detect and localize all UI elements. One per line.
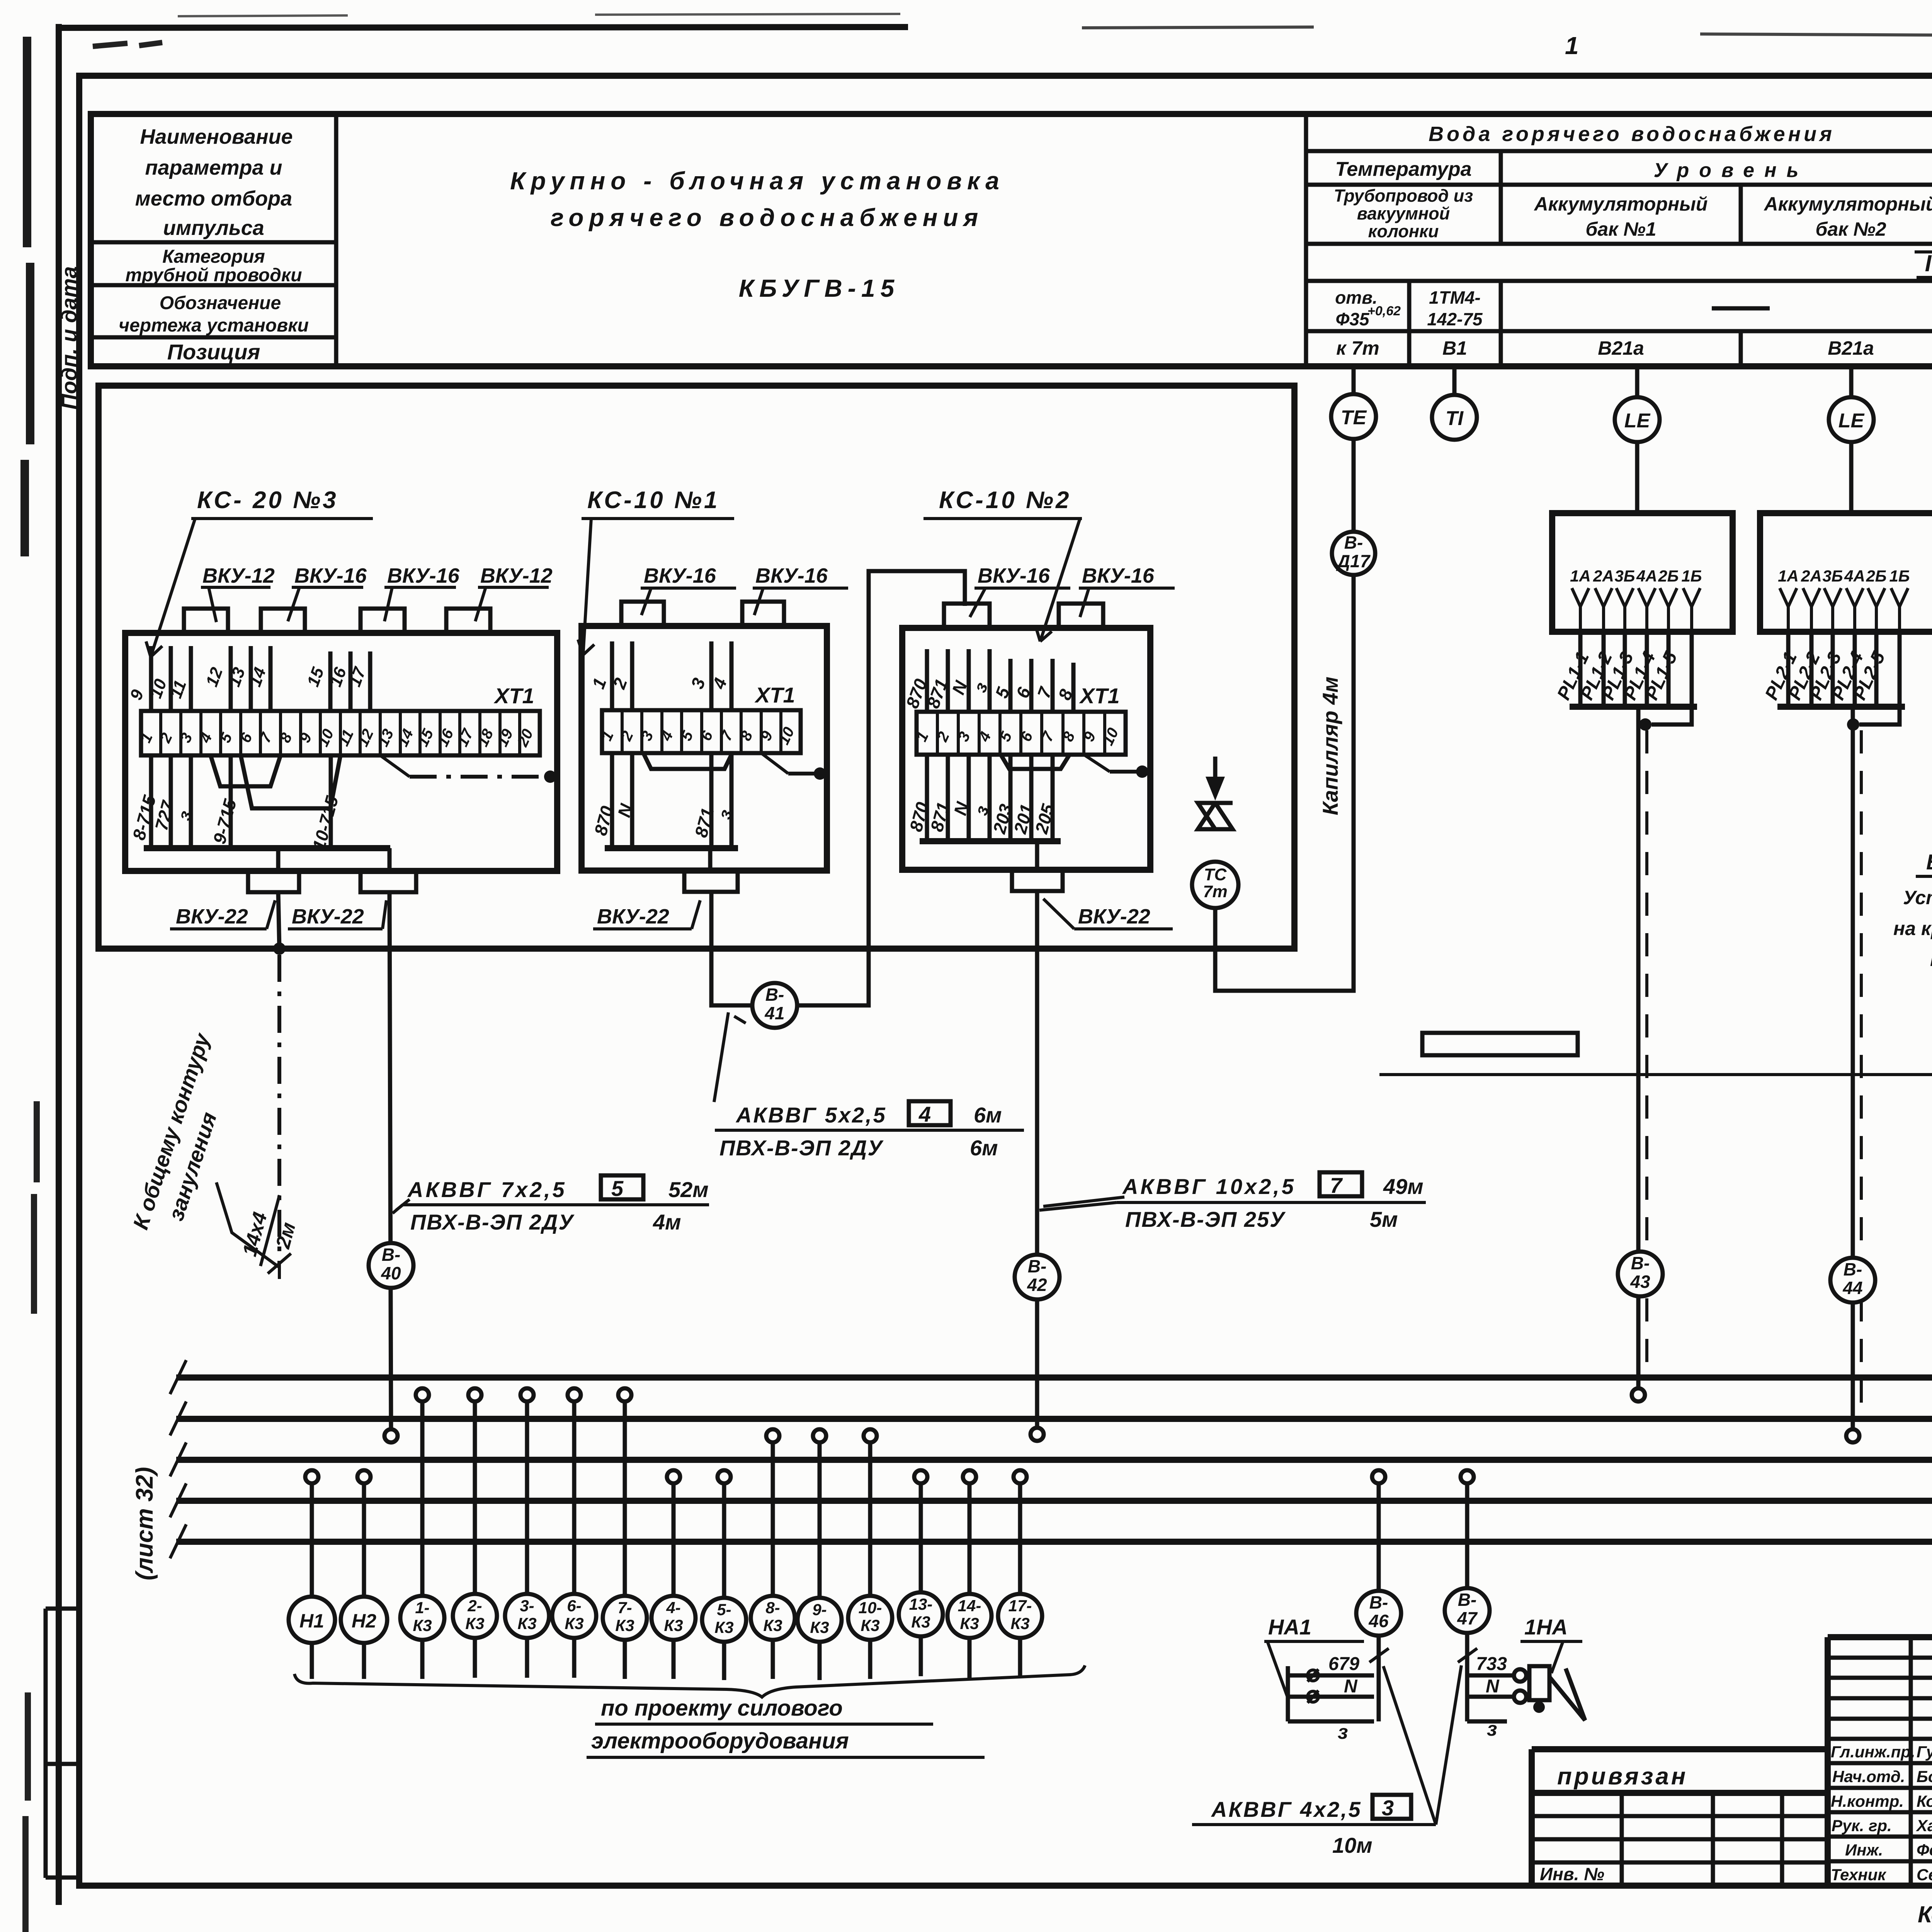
svg-text:Обозначение: Обозначение — [160, 293, 281, 313]
svg-text:Борисов: Борисов — [1917, 1767, 1932, 1786]
svg-text:трубной проводки: трубной проводки — [125, 265, 302, 286]
svg-text:Фетисова: Фетисова — [1917, 1841, 1932, 1859]
ground line end tick — [268, 1253, 291, 1279]
svg-text:ВКУ-16: ВКУ-16 — [755, 564, 828, 587]
device circle 2-K3 — [453, 1594, 497, 1638]
svg-text:К3: К3 — [465, 1614, 484, 1633]
svg-text:Аккумуляторный: Аккумуляторный — [1764, 193, 1932, 215]
svg-text:В-: В- — [1458, 1590, 1477, 1610]
connector VKU-16 no1 on KC-10 N2 — [944, 604, 990, 628]
shield dash-dot to screen point KC-20 — [380, 755, 410, 777]
svg-text:Инв. №: Инв. № — [1540, 1864, 1604, 1884]
jumper loop cells6-11 — [241, 755, 340, 808]
instrument TE (k7t) — [1331, 394, 1376, 439]
svg-text:Семаева: Семаева — [1917, 1866, 1932, 1884]
device circle 14-K3 — [947, 1594, 992, 1638]
PL1 1B return wire — [1651, 632, 1692, 724]
svg-text:5-: 5- — [717, 1600, 731, 1619]
V leader from cable label to both drops — [1383, 1665, 1461, 1825]
svg-text:Вода горячего водоснабжения: Вода горячего водоснабжения — [1429, 122, 1835, 146]
svg-text:ПВХ-В-ЭП 2ДУ: ПВХ-В-ЭП 2ДУ — [410, 1210, 575, 1234]
svg-text:ХТ1: ХТ1 — [493, 684, 534, 708]
PL2 pin labels — [1778, 567, 1910, 585]
svg-text:ВКУ-22: ВКУ-22 — [597, 905, 669, 928]
wire tap to 1-K3 — [420, 1401, 425, 1595]
svg-text:ХТ1: ХТ1 — [1079, 684, 1120, 708]
header table left column grid — [91, 114, 336, 366]
capillary line 4m down from B-D17 — [1215, 575, 1354, 991]
PL2 1B return wire — [1859, 632, 1900, 724]
svg-text:К3: К3 — [763, 1616, 782, 1634]
svg-text:1ТМ4-: 1ТМ4- — [1429, 287, 1480, 308]
label V3 with note — [1893, 835, 1932, 970]
row4 group mark IV — [1925, 250, 1932, 276]
svg-text:Установить: Установить — [1903, 887, 1932, 908]
privyazan table — [1532, 1749, 1828, 1886]
wire tap to B-46 — [1377, 1483, 1381, 1591]
jumper loop cells4-7 — [211, 755, 281, 786]
signature table grid — [1828, 1637, 1932, 1886]
svg-text:733: 733 — [1476, 1654, 1507, 1674]
svg-text:импульса: импульса — [163, 216, 264, 240]
svg-text:6-: 6- — [567, 1597, 581, 1615]
svg-text:Аккумуляторный: Аккумуляторный — [1534, 193, 1708, 215]
svg-text:10м: 10м — [1332, 1833, 1372, 1857]
PL2 pin forks — [1780, 588, 1908, 632]
left container box for KC blocks — [99, 386, 1294, 949]
svg-text:К3: К3 — [1010, 1614, 1029, 1633]
long thin reference line to cabinet — [1379, 1073, 1932, 1076]
wire tap to 3-K3 — [525, 1401, 529, 1594]
wire tap to 2-K3 — [473, 1401, 477, 1594]
svg-text:АКВВГ 4х2,5: АКВВГ 4х2,5 — [1211, 1797, 1362, 1821]
svg-text:ВКУ-22: ВКУ-22 — [176, 905, 248, 928]
cable marker B-44 — [1830, 1258, 1875, 1303]
svg-text:ХТ1: ХТ1 — [754, 683, 795, 707]
bottom wires KC-10 N2 — [927, 755, 1053, 841]
svg-text:В21а: В21а — [1828, 337, 1874, 359]
svg-text:ТС: ТС — [1204, 865, 1227, 884]
wire tap to 13-K3 — [919, 1483, 923, 1592]
svg-text:КС-10 №2: КС-10 №2 — [939, 487, 1071, 514]
thermometer circle TC 7t — [1192, 862, 1238, 908]
svg-text:N: N — [1486, 1676, 1500, 1697]
svg-text:4-: 4- — [666, 1599, 680, 1617]
device circle 5-K3 — [702, 1598, 746, 1642]
svg-text:бак №1: бак №1 — [1585, 218, 1656, 240]
cable marker B-40 — [369, 1243, 413, 1288]
svg-text:Крупно - блочная установка: Крупно - блочная установка — [510, 167, 1005, 195]
connector VKU-16 no2 on KC-20 — [261, 609, 305, 633]
title text block — [510, 167, 1005, 302]
svg-text:+0,62: +0,62 — [1367, 304, 1401, 318]
svg-text:Н2: Н2 — [352, 1610, 376, 1632]
row2 headers — [1335, 153, 1932, 187]
svg-text:по проекту силового: по проекту силового — [601, 1696, 843, 1721]
cable marker B-42 — [1015, 1255, 1060, 1299]
connector VKU-22 bottom KC-10 N2 — [1012, 870, 1063, 891]
svg-text:ВКУ-22: ВКУ-22 — [1078, 905, 1150, 928]
wire tap to 17-K3 — [1018, 1483, 1022, 1594]
svg-text:Н.контр.: Н.контр. — [1831, 1792, 1904, 1810]
drawing outer margin line — [56, 24, 62, 1905]
svg-text:TE: TE — [1341, 406, 1367, 429]
svg-text:КС-10 №1: КС-10 №1 — [587, 487, 719, 514]
svg-text:место отбора: место отбора — [135, 187, 292, 210]
title block outer — [1828, 1637, 1932, 1886]
cable marker B-43 — [1618, 1252, 1663, 1296]
signature names column — [1831, 1743, 1932, 1884]
svg-text:АКВВГ 10х2,5: АКВВГ 10х2,5 — [1122, 1174, 1296, 1199]
top wires 1,2,3,4 into XT1 KC-10 N1 — [612, 641, 731, 710]
svg-text:ПВХ-В-ЭП 25У: ПВХ-В-ЭП 25У — [1125, 1207, 1286, 1231]
svg-text:колонки: колонки — [1368, 221, 1439, 241]
svg-text:В-: В- — [1369, 1592, 1388, 1612]
svg-text:1: 1 — [1565, 32, 1579, 60]
wire from TE k7t down to B-D17 — [1352, 439, 1356, 532]
connector VKU-16 no2 on KC-10 N1 — [742, 602, 784, 626]
bottom wire labels KC-20 — [129, 793, 342, 852]
left column caption: installation drawing designation — [119, 293, 309, 336]
svg-text:Д17: Д17 — [1336, 551, 1371, 571]
junction dot on container bottom (ground tap) — [273, 942, 286, 955]
wire LE2 to level relay box PL2 — [1849, 442, 1854, 513]
terminal strip XT1 of KC-10 N2 — [917, 712, 1126, 755]
cable label AKVVG 4x2.5 no3 — [1192, 1795, 1436, 1857]
B-41 loop right side up to link — [797, 571, 965, 1005]
PL1 wires down — [1580, 632, 1668, 707]
svg-text:НА1: НА1 — [1268, 1615, 1311, 1639]
svg-text:TI: TI — [1446, 407, 1464, 430]
svg-text:Нач.отд.: Нач.отд. — [1832, 1767, 1905, 1786]
svg-text:49м: 49м — [1383, 1174, 1423, 1199]
shield dashed wire alongside B-44 — [1860, 730, 1863, 1410]
svg-text:52м: 52м — [668, 1177, 709, 1202]
shield dash-dot KC-10 N2 — [1084, 755, 1110, 772]
svg-text:бак №2: бак №2 — [1815, 218, 1886, 240]
svg-text:КБУГВ-15: КБУГВ-15 — [739, 274, 900, 302]
wire tap to 14-K3 — [968, 1483, 972, 1594]
svg-text:з: з — [1338, 1721, 1348, 1743]
svg-text:К3: К3 — [714, 1618, 733, 1636]
svg-text:4: 4 — [918, 1102, 931, 1126]
svg-text:К3: К3 — [615, 1616, 634, 1634]
svg-text:з: з — [1487, 1718, 1497, 1740]
svg-text:47: 47 — [1457, 1608, 1478, 1628]
svg-text:LE: LE — [1624, 410, 1651, 432]
PL2 bottom bus — [1777, 704, 1905, 710]
svg-text:Подп. и дата: Подп. и дата — [57, 266, 81, 410]
svg-text:В-: В- — [1344, 532, 1363, 553]
svg-text:ВКУ-12: ВКУ-12 — [202, 564, 275, 587]
device circle 4-K3 — [651, 1596, 696, 1640]
device 1HA wiring — [1467, 1675, 1514, 1721]
cable label AKVVG 7x2.5 no5 — [393, 1175, 709, 1234]
PL2 wires down — [1788, 632, 1876, 707]
top edge scan artifact line — [178, 14, 900, 16]
instrument TI stub — [1452, 366, 1457, 395]
svg-text:N: N — [1344, 1676, 1358, 1697]
valve at TC7t — [1198, 803, 1233, 829]
svg-text:42: 42 — [1027, 1275, 1047, 1295]
svg-text:В3: В3 — [1926, 850, 1932, 874]
svg-text:К3: К3 — [810, 1618, 829, 1636]
svg-text:В-: В- — [1028, 1256, 1047, 1276]
svg-text:вакуумной: вакуумной — [1357, 204, 1450, 223]
svg-text:6м: 6м — [970, 1136, 998, 1160]
svg-text:ВКУ-12: ВКУ-12 — [480, 564, 553, 587]
device circle 8-K3 — [751, 1596, 795, 1640]
svg-text:Н1: Н1 — [299, 1610, 324, 1632]
connector VKU-12 no1 on KC-20 — [184, 609, 228, 633]
wire from VKU-22 N1 down to B-41 loop — [710, 848, 752, 1005]
svg-text:чертежа установки: чертежа установки — [119, 315, 309, 336]
svg-text:Наименование: Наименование — [140, 125, 293, 148]
svg-text:4м: 4м — [653, 1210, 681, 1234]
svg-text:2Б: 2Б — [1658, 567, 1679, 585]
phase mark wire 679 — [1308, 1670, 1318, 1681]
svg-text:LE: LE — [1838, 410, 1865, 432]
panel bus bottom line — [176, 1539, 1932, 1545]
label KC-20 N3 — [146, 487, 373, 657]
wire LE1 to level relay box PL1 — [1635, 442, 1639, 513]
svg-text:3: 3 — [1382, 1796, 1394, 1820]
svg-text:КУ-1: КУ-1 — [1930, 949, 1932, 970]
top wire labels KC-10 N2 — [902, 676, 1077, 711]
label 14x4 / 2m (rotated) left — [236, 1189, 306, 1274]
horn 1HA — [1529, 1666, 1549, 1700]
cable marker B-41 — [752, 983, 797, 1028]
svg-text:ВКУ-16: ВКУ-16 — [387, 564, 460, 587]
tap circle B-40 — [384, 1429, 398, 1442]
wire bus to VKU-22 no2 down to B-40 tap — [389, 848, 391, 1430]
instrument TI — [1432, 395, 1477, 440]
row1 headers — [1429, 122, 1932, 146]
PL1 bottom bus — [1570, 704, 1697, 710]
svg-text:41: 41 — [764, 1003, 784, 1023]
svg-text:43: 43 — [1630, 1272, 1650, 1292]
svg-text:электрооборудования: электрооборудования — [591, 1728, 849, 1753]
jumper loop KC-10 N2 — [1001, 755, 1070, 769]
wire PL2 down to B-44 tap — [1851, 707, 1855, 1430]
bottom wire labels KC-10 N1 — [590, 801, 736, 840]
row5 values — [1335, 287, 1932, 329]
tap circle B-42 — [1031, 1428, 1044, 1441]
device circle 9-K3 — [798, 1598, 842, 1642]
connector VKU-22 no2 bottom KC-20 — [361, 871, 416, 892]
PL1 pin forks — [1572, 588, 1700, 632]
svg-text:АКВВГ 5х2,5: АКВВГ 5х2,5 — [735, 1103, 887, 1127]
svg-text:2А: 2А — [1593, 567, 1614, 585]
label K obshchemu konturu zanuleniya (rotated) left — [128, 1029, 244, 1242]
left column caption: pipe category — [125, 247, 302, 286]
terminal box KC-20 N3 — [125, 633, 557, 871]
B-46 drop rail — [1377, 1636, 1381, 1721]
XT1 cell numbers 1-20 — [137, 726, 537, 749]
terminal box KC-10 N2 — [902, 628, 1150, 870]
cable marker B-46 — [1356, 1591, 1401, 1636]
svg-text:В1: В1 — [1442, 337, 1467, 359]
terminal strip XT1 of KC-10 N1 — [602, 710, 801, 753]
brace under device circles — [294, 1665, 1085, 1697]
instrument LE no2 — [1829, 397, 1874, 442]
panel bus line Shchit2 — [176, 1457, 1932, 1463]
wire tap to 7-K3 — [623, 1401, 627, 1595]
svg-text:8-: 8- — [765, 1599, 780, 1617]
svg-text:В-: В- — [765, 985, 784, 1005]
instrument LE no1 — [1615, 397, 1660, 442]
svg-text:3Б: 3Б — [1822, 567, 1843, 585]
svg-text:К3: К3 — [861, 1616, 879, 1634]
wire tap to 9-K3 — [818, 1442, 822, 1597]
XT1 cell numbers KC-10 N2 — [913, 725, 1122, 748]
wire tap to H1 — [310, 1483, 314, 1597]
bottom collector bus KC-20 — [144, 845, 390, 851]
svg-text:В-: В- — [382, 1245, 401, 1265]
panel bus line Shchit1 sektsiya2 — [176, 1416, 1932, 1422]
instrument TE (k7t) stub — [1352, 366, 1356, 394]
left margin tick boxes — [46, 1609, 79, 1878]
label KC-10 N1 — [578, 487, 734, 655]
svg-text:3-: 3- — [520, 1597, 534, 1615]
panel bus line Shchit3 — [176, 1498, 1932, 1504]
device HA1 wiring ladder — [1288, 1666, 1374, 1721]
tap circle B-43 — [1632, 1388, 1645, 1401]
svg-text:Ф35: Ф35 — [1335, 309, 1369, 329]
note po proektu silovogo — [587, 1696, 985, 1757]
svg-text:14-: 14- — [958, 1597, 981, 1615]
svg-text:Трубопровод из: Трубопровод из — [1334, 186, 1473, 206]
shield dash-dot KC-10 N1 — [761, 753, 788, 774]
svg-text:5: 5 — [611, 1176, 624, 1201]
svg-text:ВКУ-16: ВКУ-16 — [1082, 564, 1155, 587]
wire tap to 8-K3 — [771, 1442, 775, 1595]
svg-text:параметра и: параметра и — [145, 156, 282, 179]
device circle H1 — [289, 1597, 335, 1643]
svg-text:Копир.: Копир. — [1918, 1901, 1932, 1927]
svg-text:Корчкова: Корчкова — [1917, 1792, 1932, 1810]
svg-text:В-: В- — [1844, 1259, 1862, 1279]
svg-text:Позиция: Позиция — [167, 340, 260, 364]
ground dash-dot line 14x4 2m — [277, 955, 281, 1264]
neutral mark wire N — [1308, 1691, 1318, 1702]
svg-text:1-: 1- — [415, 1599, 429, 1617]
XT1 cell numbers KC-10 N1 — [598, 724, 798, 747]
svg-text:Техник: Техник — [1831, 1866, 1886, 1884]
svg-text:горячего водоснабжения: горячего водоснабжения — [551, 204, 983, 231]
device circle 1-K3 — [400, 1596, 444, 1640]
panel bus line Shchit1 sektsiya1 — [176, 1374, 1932, 1381]
PL1 pin labels — [1570, 567, 1702, 585]
jumper loop KC-10 N1 — [643, 753, 732, 769]
bottom wire labels KC-10 N2 — [906, 799, 1058, 836]
svg-text:1Б: 1Б — [1681, 567, 1702, 585]
svg-text:Гл.инж.пр.: Гл.инж.пр. — [1831, 1743, 1915, 1761]
svg-text:13-: 13- — [909, 1595, 933, 1613]
device circle 13-K3 — [899, 1592, 943, 1636]
label KC-10 N2 — [923, 487, 1082, 641]
PL2 wire labels — [1761, 648, 1889, 703]
svg-text:Температура: Температура — [1335, 158, 1471, 180]
svg-text:3Б: 3Б — [1614, 567, 1635, 585]
svg-text:679: 679 — [1328, 1654, 1359, 1674]
svg-text:К3: К3 — [664, 1616, 683, 1634]
svg-text:К3: К3 — [565, 1614, 583, 1633]
wire from VKU-22 N2 down to B-42 tap — [1035, 841, 1039, 1428]
svg-text:Категория: Категория — [162, 247, 265, 267]
right table vertical grid — [1306, 114, 1932, 366]
svg-text:2А: 2А — [1801, 567, 1822, 585]
top wires into XT1 KC-10 N2 — [927, 649, 1073, 712]
svg-text:Уровень: Уровень — [1654, 159, 1809, 182]
svg-text:В21а: В21а — [1598, 337, 1644, 359]
wire PL1 down to B-43 tap — [1636, 707, 1641, 1389]
outer top scan line — [59, 27, 908, 28]
svg-text:К3: К3 — [911, 1613, 930, 1631]
svg-text:ВКУ-16: ВКУ-16 — [294, 564, 367, 587]
svg-text:4А: 4А — [1636, 567, 1657, 585]
row5 dash in level columns — [1712, 306, 1770, 311]
top wires 9..17 into XT1 — [151, 646, 370, 711]
svg-text:к 7т: к 7т — [1336, 337, 1379, 359]
svg-text:142-75: 142-75 — [1427, 309, 1483, 329]
header table outer box — [91, 114, 1932, 366]
PL1 junction dot — [1639, 718, 1651, 731]
bus left end ticks — [170, 1360, 186, 1558]
svg-text:46: 46 — [1368, 1611, 1389, 1631]
wire tap to B-47 — [1465, 1483, 1469, 1588]
shield dashed wire alongside B-43 — [1645, 730, 1648, 1372]
svg-text:Харитонов: Харитонов — [1916, 1816, 1932, 1835]
wire tap to 10-K3 — [868, 1442, 872, 1595]
tap circle B-44 — [1846, 1429, 1859, 1442]
svg-text:IV: IV — [1925, 250, 1932, 276]
bottom collector bus KC-10 N1 — [605, 845, 738, 851]
top wire labels 9..17 — [126, 664, 370, 702]
device circle 7-K3 — [603, 1596, 647, 1640]
wire tap to 4-K3 — [672, 1483, 676, 1595]
connector VKU-22 bottom KC-10 N1 — [684, 871, 738, 892]
svg-text:на кронштейне: на кронштейне — [1893, 918, 1932, 939]
B-47 drop rail — [1465, 1633, 1469, 1721]
terminal box KC-10 N1 — [582, 626, 827, 871]
instrument LE no1 stub — [1635, 366, 1639, 397]
svg-text:К3: К3 — [413, 1616, 432, 1634]
svg-text:6м: 6м — [974, 1103, 1002, 1127]
svg-text:1А: 1А — [1570, 567, 1591, 585]
svg-text:7-: 7- — [617, 1599, 632, 1617]
svg-text:1А: 1А — [1778, 567, 1799, 585]
empty reference rectangle above long line — [1422, 1033, 1578, 1055]
cable label AKVVG 10x2.5 no7 — [1039, 1172, 1426, 1231]
svg-text:ВКУ-16: ВКУ-16 — [978, 564, 1050, 587]
svg-text:Гусева: Гусева — [1917, 1743, 1932, 1761]
device circle 10-K3 — [848, 1596, 892, 1640]
svg-text:10-: 10- — [859, 1599, 882, 1617]
row3 headers — [1334, 186, 1932, 241]
svg-text:17-: 17- — [1009, 1597, 1032, 1615]
top wire labels KC-10 N1 — [588, 675, 731, 692]
svg-text:7: 7 — [1330, 1173, 1343, 1197]
svg-text:2Б: 2Б — [1866, 567, 1886, 585]
scan edge blotches left — [25, 37, 30, 556]
PL2 junction dot — [1847, 718, 1859, 731]
pipe arrow above valve TC7t — [1213, 757, 1218, 792]
svg-text:(лист 32): (лист 32) — [131, 1467, 158, 1580]
svg-text:привязан: привязан — [1557, 1763, 1688, 1790]
device circle 17-K3 — [998, 1594, 1042, 1638]
svg-text:40: 40 — [381, 1263, 401, 1283]
